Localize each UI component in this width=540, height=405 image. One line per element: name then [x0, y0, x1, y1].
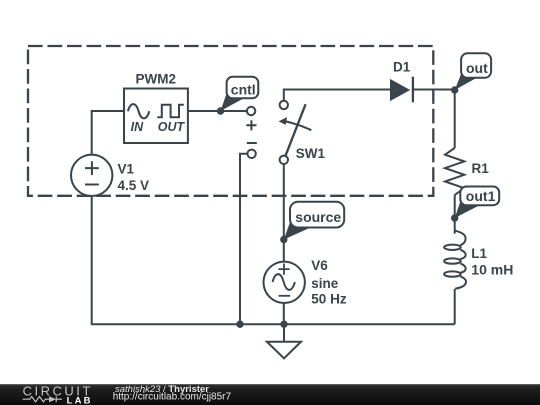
pulse icon: [157, 105, 184, 118]
svg-text:out1: out1: [466, 188, 496, 204]
inductor L1: [444, 231, 466, 289]
svg-text:sine: sine: [311, 276, 339, 291]
control + polarity: [246, 120, 256, 130]
V6 - polarity: [279, 295, 291, 297]
wire D1 cathode to node out: [413, 89, 455, 91]
wire SW1 - control terminal to bottom rail: [240, 154, 247, 324]
svg-text:4.5 V: 4.5 V: [118, 178, 150, 193]
rail junction dot (V6/ground): [280, 321, 287, 328]
svg-text:http://circuitlab.com/cjj85r7: http://circuitlab.com/cjj85r7: [113, 392, 232, 403]
arrowhead of SW1 arc: [279, 117, 287, 125]
svg-text:IN: IN: [131, 120, 144, 134]
label L1 10 mH: [471, 246, 513, 278]
V6 sine: [273, 274, 295, 290]
control - polarity: [247, 142, 257, 144]
wire node out down to R1 top: [454, 90, 456, 149]
svg-text:R1: R1: [472, 161, 490, 176]
svg-text:cntl: cntl: [231, 82, 256, 98]
svg-text:source: source: [295, 209, 341, 225]
svg-text:D1: D1: [393, 60, 411, 75]
sine icon: [128, 104, 149, 118]
wire V1 bottom to bottom rail: [92, 196, 455, 324]
svg-text:PWM2: PWM2: [136, 71, 177, 86]
resistor R1: [445, 148, 464, 195]
svg-text:V6: V6: [311, 258, 328, 273]
svg-text:LAB: LAB: [67, 396, 93, 405]
svg-text:OUT: OUT: [158, 120, 186, 134]
node label source: [284, 202, 344, 240]
ground: [267, 342, 301, 359]
node label cntl: [221, 77, 259, 111]
wire PWM2 IN to V1 top: [92, 111, 124, 155]
blade: [285, 104, 305, 156]
wire L1 bottom to rail: [454, 289, 456, 325]
label V6 sine 50 Hz: [311, 258, 347, 306]
footer bar: [0, 384, 540, 405]
dashed subcircuit box: [28, 46, 433, 196]
diode D1: [390, 77, 413, 103]
svg-text:V1: V1: [118, 161, 135, 176]
node label out1: [455, 187, 499, 219]
rail junction dot (SW1 - wire): [236, 321, 243, 328]
actuation arc arrow: [284, 121, 312, 130]
voltage source V6: [264, 262, 305, 303]
wire PWM2 OUT to SW1 + control terminal: [188, 110, 247, 112]
svg-text:SW1: SW1: [296, 146, 326, 161]
PWM2 block U: [124, 89, 188, 144]
logo resistor-diode glyph: [23, 396, 62, 402]
node out1 junction dot: [451, 214, 458, 221]
node label out: [455, 53, 491, 90]
wire SW1 top to D1 anode: [284, 90, 390, 101]
wire ground stem: [283, 324, 285, 341]
wire V6 bottom to rail: [283, 303, 285, 324]
node source junction dot: [280, 236, 287, 243]
svg-text:50 Hz: 50 Hz: [311, 291, 347, 306]
wire SW1 bottom down to node source: [283, 164, 285, 240]
node out junction dot: [451, 86, 458, 93]
switch SW1: [280, 101, 312, 164]
svg-text:out: out: [466, 60, 488, 76]
svg-text:10 mH: 10 mH: [471, 262, 513, 278]
wire R1 bottom to node out1: [454, 195, 456, 218]
node cntl junction dot: [217, 107, 224, 114]
wire node source to V6 top: [283, 240, 285, 262]
switch SW1 control terminals: [246, 107, 256, 158]
voltage source V1: [71, 155, 112, 196]
V6 + polarity: [278, 264, 289, 275]
wire node out1 to L1 top: [454, 218, 456, 234]
svg-text:L1: L1: [471, 246, 487, 261]
label V1 4.5 V: [118, 161, 150, 193]
